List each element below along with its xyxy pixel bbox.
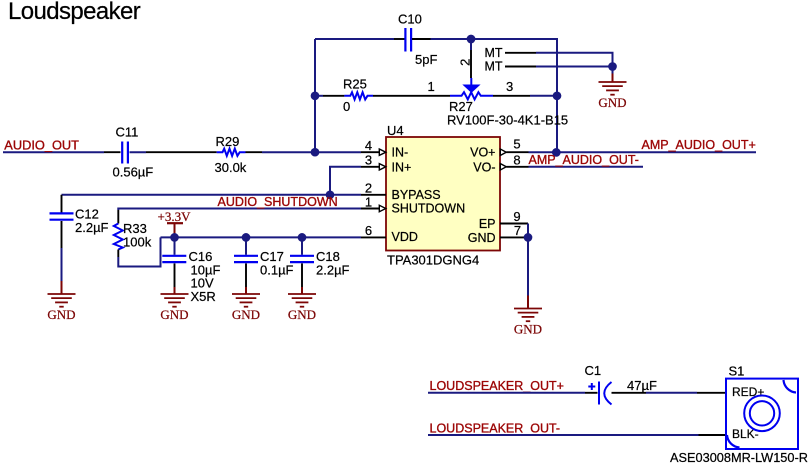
svg-text:LOUDSPEAKER_OUT+: LOUDSPEAKER_OUT+ [430,379,564,393]
wire top feedback to C10 [315,38,394,40]
svg-text:GND: GND [514,321,542,336]
wire down to gnd symbol [527,237,529,296]
resistor R29 [215,134,247,175]
svg-text:1: 1 [428,79,435,94]
wire C17 to gnd [245,263,247,287]
wire VO+ to AMP_AUDIO_OUT+ [529,151,757,153]
capacitor C18 [290,237,350,277]
svg-text:47µF: 47µF [627,378,657,393]
capacitor C1 (polarized) [585,363,657,405]
ground GND (C18) [288,287,316,307]
svg-text:0: 0 [343,99,350,114]
svg-text:AUDIO_OUT: AUDIO_OUT [4,138,79,153]
capacitor C12 [50,207,109,235]
wire C16 to gnd [174,263,176,287]
svg-text:6: 6 [365,223,372,238]
svg-text:R29: R29 [216,134,240,149]
capacitor C11 [113,124,154,179]
svg-text:VO+: VO+ [470,145,495,159]
junction VDD/C18 [298,233,307,242]
svg-text:U4: U4 [387,123,404,138]
ground GND (C12) [48,281,76,307]
pin 8 VO- stub [473,152,528,174]
wire MT2 to gnd junction [536,66,613,68]
svg-text:LOUDSPEAKER_OUT-: LOUDSPEAKER_OUT- [430,421,561,435]
pin 3 IN+ stub [361,153,411,175]
wire LOUDSPEAKER_OUT+ [428,392,585,394]
ground GND (C17) [232,287,260,307]
wire R33 bottom to VDD rail [118,237,160,266]
svg-text:EP: EP [479,217,496,231]
ground GND (C16) [161,287,189,307]
capacitor C17 [234,237,294,277]
svg-text:2.2µF: 2.2µF [75,220,109,235]
wire down to C12 [61,195,63,213]
power +3.3V [158,209,192,238]
junction at R29/U4 node [311,148,320,157]
junction feedback riser / R25 [311,91,320,100]
wire AUDIO_OUT net left segment [3,151,104,153]
svg-text:MT: MT [485,46,503,60]
svg-text:100k: 100k [123,234,152,249]
wire R33 bottom lead [117,250,119,258]
IC U4 body [386,123,500,268]
wire BYPASS net [62,194,362,196]
wire VO- to AMP_AUDIO_OUT- [529,166,644,168]
wire R27 pin3 down to VO+ net [556,96,558,152]
svg-text:VDD: VDD [392,230,418,244]
wire C1 to S1 [612,392,647,394]
svg-text:AMP_AUDIO_OUT+: AMP_AUDIO_OUT+ [642,138,756,152]
junction R27 pin3 [553,91,562,100]
wire SHUTDOWN net [118,209,361,211]
junction VDD/C17 [242,233,251,242]
junction VDD/C16/+3.3V [170,233,179,242]
capacitor C10 [398,12,437,68]
svg-text:4: 4 [365,138,372,153]
wire R29 to U4 pin4 [246,151,263,153]
pin 2 BYPASS stub [361,181,441,202]
wire R25 left lead from junction [315,95,323,97]
svg-text:C10: C10 [398,12,422,27]
pin 7 GND stub [468,223,526,245]
svg-text:AUDIO_SHUTDOWN: AUDIO_SHUTDOWN [218,195,338,209]
svg-text:2: 2 [457,59,472,66]
svg-text:3: 3 [365,153,372,168]
svg-text:IN-: IN- [392,146,409,160]
svg-text:RV100F-30-4K1-B15: RV100F-30-4K1-B15 [447,112,568,127]
wire IN+ net [330,167,361,195]
speaker S1 [670,364,808,466]
svg-text:TPA301DGNG4: TPA301DGNG4 [387,253,479,268]
svg-text:BYPASS: BYPASS [392,188,441,202]
wire vertical feedback riser x=315 [314,39,316,152]
pin 6 VDD stub [361,223,418,244]
wire VDD rail [161,236,362,238]
svg-text:GND: GND [232,307,260,322]
svg-text:GND: GND [288,307,316,322]
svg-text:9: 9 [513,209,520,224]
wire C11 to R29 [130,151,147,153]
wire C12 to gnd [61,221,63,248]
svg-text:X5R: X5R [191,289,216,304]
junction VO+ / feedback [552,148,561,157]
svg-text:GND: GND [160,307,188,322]
svg-text:GND: GND [468,231,496,245]
ground GND (MT) [612,67,614,75]
svg-text:S1: S1 [729,364,745,379]
wire EP to gnd [527,224,529,238]
mounting pin MT1 [485,46,537,60]
pin 5 VO+ stub [470,137,528,160]
svg-text:Loudspeaker: Loudspeaker [8,0,141,25]
svg-text:+3.3V: +3.3V [158,209,192,224]
junction IN+/BYPASS [326,190,335,199]
svg-text:AMP_AUDIO_OUT-: AMP_AUDIO_OUT- [529,153,639,167]
svg-text:8: 8 [513,152,520,167]
pin 9 EP stub [479,209,528,231]
wire C18 to gnd [301,263,303,287]
wire C10 to wiper junction [412,38,431,40]
pin 4 IN- stub [361,138,408,160]
wire top right corner down to R27 pin3 [471,39,557,96]
svg-text:IN+: IN+ [392,160,412,174]
wire wiper vertical pin2 [470,50,472,78]
resistor R33 [114,221,152,250]
svg-text:0.56µF: 0.56µF [113,164,154,179]
svg-text:MT: MT [485,60,503,74]
svg-text:C11: C11 [116,124,139,139]
wire R33 top lead [117,210,119,224]
svg-text:GND: GND [598,95,626,110]
wire MT1 to gnd junction [536,53,613,67]
svg-text:C1: C1 [585,363,602,378]
junction C10 / wiper [467,35,476,44]
svg-text:30.0k: 30.0k [215,160,247,175]
ground GND (U4) [514,296,542,322]
svg-text:VO-: VO- [473,160,495,174]
pin 1 SHUTDOWN stub [361,194,465,215]
svg-text:GND: GND [47,307,75,322]
svg-text:2.2µF: 2.2µF [316,262,350,277]
mounting pin MT2 [485,60,537,74]
capacitor C16 [162,237,220,304]
svg-text:R25: R25 [343,77,367,92]
wire R25 to R27 pin1 [373,95,450,97]
junction EP/GND [524,233,533,242]
resistor R25 [343,77,373,115]
svg-text:0.1µF: 0.1µF [260,262,294,277]
svg-text:5pF: 5pF [415,52,437,67]
wire R27 pin3 lead [493,95,530,97]
potentiometer R27 [447,78,568,127]
svg-text:3: 3 [506,79,513,94]
junction MT gnd [608,62,617,71]
svg-text:RED+: RED+ [732,385,764,399]
svg-text:ASE03008MR-LW150-R: ASE03008MR-LW150-R [670,450,808,465]
wire lead into C11 [104,151,121,153]
svg-text:5: 5 [513,137,520,152]
svg-text:7: 7 [514,223,521,238]
svg-text:1: 1 [365,194,372,209]
svg-text:SHUTDOWN: SHUTDOWN [392,202,466,216]
wire LOUDSPEAKER_OUT- [428,434,699,436]
